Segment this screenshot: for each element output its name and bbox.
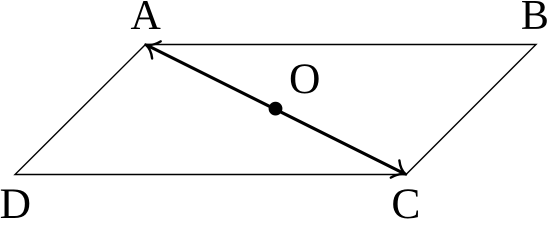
- svg-text:B: B: [521, 0, 549, 39]
- svg-text:A: A: [131, 0, 162, 39]
- svg-text:D: D: [0, 180, 31, 219]
- svg-text:C: C: [391, 180, 420, 219]
- svg-text:O: O: [289, 55, 320, 103]
